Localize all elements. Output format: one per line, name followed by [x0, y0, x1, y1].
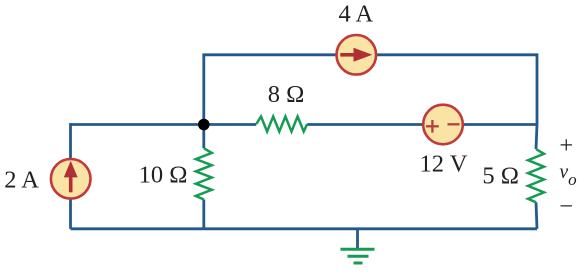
wire: left branch vertical through 2A source	[69, 123, 72, 229]
svg-text:−: −	[559, 193, 573, 220]
wire: 10-ohm lower lead to bottom rail	[202, 200, 205, 229]
current source I2 arrowhead	[354, 48, 373, 62]
svg-text:vo: vo	[560, 162, 577, 189]
current source I2 4A circle	[337, 35, 377, 75]
wire: right rail upper (top rail down to middle rail)	[536, 53, 539, 124]
wire: node A up to top rail	[202, 55, 205, 125]
resistor R2 10 ohm (vertical)	[196, 148, 212, 199]
ground bar 1	[341, 248, 375, 251]
current source I1 arrow shaft (up)	[69, 175, 73, 192]
wire: top rail left of 4A source	[202, 53, 336, 56]
wire: bottom rail	[71, 227, 538, 230]
node A: junction dot	[198, 119, 210, 131]
wire: 5-ohm lower lead to bottom rail	[536, 202, 537, 229]
svg-text:10 Ω: 10 Ω	[139, 162, 188, 189]
wire: middle rail between 12V source and right rail	[463, 123, 538, 126]
voltage source V1 12V circle	[423, 105, 463, 145]
svg-text:4 A: 4 A	[338, 1, 373, 28]
current source I2 arrow shaft (right)	[340, 53, 355, 57]
svg-text:8 Ω: 8 Ω	[268, 81, 305, 108]
resistor R1 8 ohm (horizontal)	[256, 117, 307, 132]
wire: middle rail left (left rail to 8-ohm)	[71, 123, 257, 126]
current source I1 arrowhead	[64, 161, 78, 178]
svg-text:5 Ω: 5 Ω	[482, 163, 519, 190]
voltage source V1 plus sign	[426, 120, 439, 133]
wire: top rail right of 4A source	[376, 53, 537, 56]
wire: 5-ohm upper lead from middle rail	[536, 125, 537, 150]
resistor R3 5 ohm (vertical)	[528, 149, 544, 202]
ground bar 3	[354, 262, 363, 265]
voltage source V1 minus sign	[448, 123, 460, 125]
ground bar 2	[348, 255, 369, 258]
wire: middle rail between 8-ohm and 12V source	[307, 123, 423, 126]
current source I1 2A circle	[51, 159, 91, 199]
svg-text:2 A: 2 A	[4, 166, 39, 193]
svg-text:12 V: 12 V	[420, 150, 468, 177]
wire: 10-ohm upper lead from node A	[202, 125, 205, 149]
svg-text:+: +	[559, 132, 573, 159]
ground stem	[356, 229, 359, 250]
